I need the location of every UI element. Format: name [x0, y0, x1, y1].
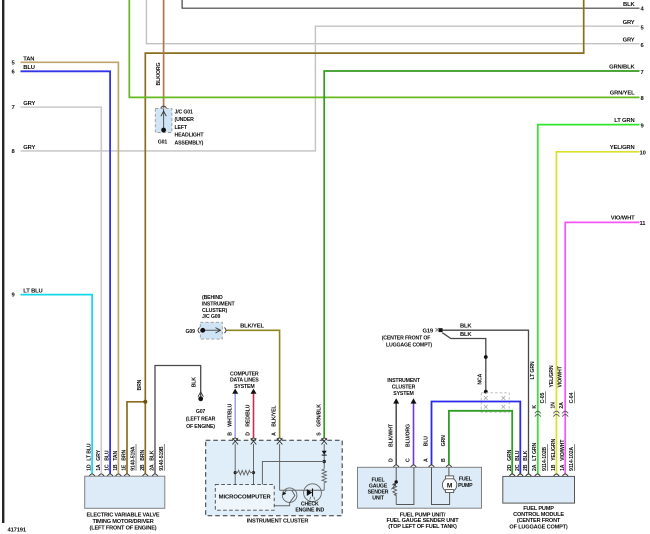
left margin bar: [2, 0, 4, 523]
svg-text:ENGINE IND: ENGINE IND: [295, 508, 324, 514]
svg-text:BLK: BLK: [460, 324, 472, 330]
svg-text:GRN/YEL: GRN/YEL: [610, 90, 635, 96]
svg-text:C-04: C-04: [569, 392, 575, 403]
svg-text:K: K: [532, 405, 538, 409]
svg-text:GRN/BLK: GRN/BLK: [316, 404, 322, 427]
svg-text:VIO/WHT: VIO/WHT: [611, 216, 635, 222]
svg-text:LT GRN: LT GRN: [532, 442, 538, 460]
control module pin chevrons: [509, 474, 568, 476]
svg-text:CLUSTER: CLUSTER: [392, 384, 416, 390]
svg-text:9114-102A: 9114-102A: [569, 447, 575, 471]
svg-text:9114-102B: 9114-102B: [542, 447, 548, 471]
svg-text:GRY: GRY: [23, 101, 35, 107]
wire BLK/ORG (top to J/C G01): [156, 0, 163, 109]
svg-text:(LEFT REAR: (LEFT REAR: [186, 416, 216, 422]
svg-text:G19: G19: [422, 329, 433, 335]
svg-text:BLK: BLK: [460, 332, 472, 338]
svg-text:(LEFT FRONT OF ENGINE): (LEFT FRONT OF ENGINE): [90, 525, 157, 531]
svg-text:TAN: TAN: [113, 450, 119, 460]
svg-text:7: 7: [641, 70, 644, 76]
diagram number 417191: [8, 528, 27, 534]
wire BLU/ORG (fuel pump unit pin C to instrument cluster system): [406, 398, 417, 465]
svg-text:2D: 2D: [507, 464, 513, 471]
svg-text:GRY: GRY: [623, 37, 635, 43]
svg-text:HEADLIGHT: HEADLIGHT: [175, 133, 205, 139]
svg-text:D: D: [246, 432, 252, 436]
svg-text:WHT/BLU: WHT/BLU: [227, 403, 233, 426]
cluster pin B: [232, 438, 238, 444]
svg-text:YEL/GRN: YEL/GRN: [549, 365, 555, 387]
svg-text:BLK: BLK: [150, 450, 156, 461]
cluster internal wire D: [252, 444, 255, 485]
svg-text:(CENTER FRONT: (CENTER FRONT: [517, 518, 561, 524]
svg-text:ASSEMBLY): ASSEMBLY): [175, 140, 204, 146]
svg-text:1B: 1B: [551, 464, 557, 471]
svg-text:(CENTER FRONT OF: (CENTER FRONT OF: [382, 335, 431, 341]
svg-text:1B: 1B: [113, 464, 119, 471]
svg-text:TIMING MOTOR/DRIVER: TIMING MOTOR/DRIVER: [92, 519, 153, 525]
svg-text:GRN: GRN: [507, 449, 513, 460]
svg-text:INSTRUMENT: INSTRUMENT: [202, 302, 235, 308]
wire BLK/YEL (J/C G09 to instrument cluster pin A): [226, 324, 280, 438]
transistor Q (check engine driver): [282, 488, 297, 503]
wire BLU 6 (left to EVVT pin 1C): [12, 65, 111, 474]
svg-text:BRN: BRN: [137, 379, 143, 390]
chord wire through transistor and lamp: [280, 489, 325, 491]
svg-text:NCA: NCA: [478, 373, 484, 384]
svg-text:MICROCOMPUTER: MICROCOMPUTER: [219, 494, 272, 500]
wire BLK (EVVT pin 2A to ground G07): [155, 366, 203, 475]
wire BLK/WHT (fuel pump unit pin D to instrument cluster system): [388, 398, 399, 465]
svg-text:OF ENGINE): OF ENGINE): [186, 424, 215, 430]
svg-text:9140-519B: 9140-519B: [159, 446, 165, 471]
wire TAN 5 (left to EVVT pin 1B): [12, 56, 119, 474]
svg-text:2A: 2A: [150, 464, 156, 471]
cluster pin S: [321, 438, 327, 444]
svg-text:(TOP LEFT OF FUEL TANK): (TOP LEFT OF FUEL TANK): [388, 524, 457, 530]
svg-text:G07: G07: [196, 409, 206, 415]
svg-text:1C: 1C: [105, 464, 111, 471]
svg-text:BRN: BRN: [122, 450, 128, 461]
ground G09: [186, 328, 206, 335]
svg-text:GRY: GRY: [96, 449, 102, 460]
ground G07 (LEFT REAR OF ENGINE): [186, 396, 216, 429]
node COMPUTER DATA LINES SYSTEM: [230, 372, 259, 390]
svg-text:COMPUTER: COMPUTER: [230, 372, 259, 378]
svg-text:B: B: [227, 432, 233, 436]
wire BLU (fuel pump unit pin A to control module pin 2C): [424, 402, 521, 475]
svg-text:LEFT: LEFT: [175, 125, 188, 131]
svg-text:UNIT: UNIT: [372, 496, 384, 502]
svg-text:PUMP: PUMP: [458, 483, 473, 489]
svg-text:BLK: BLK: [523, 450, 529, 461]
svg-text:(BEHIND: (BEHIND: [202, 295, 223, 301]
svg-text:M: M: [447, 482, 453, 489]
node INSTRUMENT CLUSTER SYSTEM: [387, 378, 420, 397]
svg-text:2B: 2B: [523, 464, 529, 471]
EVVT pin labels: [87, 443, 165, 471]
fuel pump unit pin chevrons D C A B: [393, 465, 451, 467]
svg-text:GRY: GRY: [623, 20, 635, 26]
svg-text:LT GRN: LT GRN: [530, 361, 536, 379]
svg-text:1A: 1A: [560, 464, 566, 471]
svg-text:CLUSTER): CLUSTER): [202, 308, 227, 314]
svg-text:BLK: BLK: [623, 2, 635, 8]
wire RED/BLU (computer data lines to cluster pin D): [246, 389, 257, 438]
resistor on S line: [322, 468, 326, 490]
svg-text:2A: 2A: [559, 402, 565, 409]
electric variable valve timing motor/driver box: [85, 476, 165, 508]
label J/C G01 (UNDER LEFT HEADLIGHT ASSEMBLY): [175, 110, 205, 147]
cluster pin A: [277, 438, 283, 444]
svg-text:G09: G09: [186, 329, 196, 335]
control module pin labels: [507, 438, 575, 471]
svg-text:2C: 2C: [515, 464, 521, 471]
wire BRN branch to EVVT pin 1E: [127, 379, 147, 474]
svg-text:7: 7: [12, 105, 15, 111]
svg-text:A: A: [424, 458, 430, 462]
cluster internal wire A: [279, 444, 281, 490]
label (BEHIND INSTRUMENT CLUSTER) J/C G09: [202, 295, 235, 320]
wire GRN (fuel pump unit pin B to control module pin 2D): [441, 411, 512, 475]
svg-text:1D: 1D: [87, 464, 93, 471]
svg-text:LT BLU: LT BLU: [23, 288, 42, 294]
svg-text:G01: G01: [158, 140, 168, 146]
svg-text:2A: 2A: [532, 464, 538, 471]
wire YEL/GRN 10 (right edge to control module pin 1B): [549, 145, 646, 474]
svg-text:9140-519A: 9140-519A: [131, 446, 137, 471]
svg-text:GRN: GRN: [441, 435, 447, 446]
svg-text:BLU: BLU: [424, 436, 430, 447]
svg-text:ELECTRIC VARIABLE VALVE: ELECTRIC VARIABLE VALVE: [87, 513, 160, 519]
svg-text:BLK: BLK: [191, 377, 197, 388]
connector (dashed) below NCA: [481, 393, 509, 412]
svg-text:BLK/YEL: BLK/YEL: [272, 405, 278, 427]
svg-text:1E: 1E: [122, 464, 128, 471]
svg-text:BLU: BLU: [105, 450, 111, 461]
in-line connector on LT GRN wire (pin K, C-05): [532, 391, 546, 416]
svg-text:FUEL: FUEL: [459, 477, 473, 483]
cluster internal wire B: [234, 444, 237, 485]
label FUEL PUMP CONTROL MODULE: [509, 506, 567, 531]
wire BLK 4 (top to right edge): [182, 0, 644, 13]
svg-text:BLK/WHT: BLK/WHT: [388, 423, 394, 447]
EVVT pin chevrons: [89, 474, 158, 476]
fuel gauge sender resistor: [368, 467, 414, 504]
ground G01: [158, 128, 168, 146]
svg-text:2B: 2B: [140, 464, 146, 471]
junction connector J/C G01: [155, 106, 172, 132]
svg-text:OF LUGGAGE COMPT): OF LUGGAGE COMPT): [509, 524, 567, 530]
svg-text:BRN: BRN: [140, 450, 146, 461]
wire LT BLU 9 (left to EVVT pin 1D): [12, 288, 93, 474]
microcomputer box: [215, 485, 274, 511]
wire branch S dot to microcomputer: [262, 462, 324, 485]
wire WHT/BLU (computer data lines to cluster pin B): [227, 389, 238, 438]
svg-text:J/C G09: J/C G09: [202, 314, 221, 320]
wire VIO/WHT 11 (right edge to control module pin 1A): [558, 216, 647, 475]
svg-text:INSTRUMENT CLUSTER: INSTRUMENT CLUSTER: [247, 519, 309, 525]
resistor between B and D lines: [235, 470, 253, 475]
svg-text:GRY: GRY: [23, 145, 35, 151]
svg-text:1N: 1N: [550, 402, 556, 409]
svg-text:FUEL PUMP: FUEL PUMP: [523, 506, 554, 512]
in-line connector on YEL/GRN wire (pin 1N): [550, 402, 559, 417]
svg-text:BLU/ORG: BLU/ORG: [406, 424, 412, 447]
svg-text:TAN: TAN: [23, 56, 34, 62]
instrument cluster box: [206, 440, 343, 524]
junction connector J/C G09: [198, 322, 226, 339]
wire GRN/YEL (top to right edge 8): [129, 0, 644, 102]
svg-text:SYSTEM: SYSTEM: [234, 384, 254, 390]
svg-text:LT GRN: LT GRN: [614, 118, 634, 124]
wire GRY 7 (left to EVVT pin 1A): [12, 101, 102, 474]
svg-text:YEL/GRN: YEL/GRN: [610, 145, 635, 151]
svg-text:BLU: BLU: [515, 450, 521, 461]
svg-text:BLU: BLU: [23, 65, 34, 71]
wire GRY (top to right edge 6): [146, 0, 644, 49]
wire GRY (left 8 to right 5): [12, 20, 645, 155]
svg-text:CONTROL MODULE: CONTROL MODULE: [513, 512, 564, 518]
svg-text:11: 11: [640, 221, 647, 227]
svg-text:1A: 1A: [96, 464, 102, 471]
label FUEL PUMP UNIT: [386, 512, 459, 530]
wire BLK (G19 to NCA connector): [442, 332, 487, 393]
fuel pump control module box: [503, 476, 575, 503]
svg-text:10: 10: [640, 151, 646, 157]
svg-text:GRN/BLK: GRN/BLK: [609, 64, 635, 70]
svg-text:LT BLU: LT BLU: [87, 443, 93, 461]
lamp CHECK ENGINE IND: [295, 484, 324, 514]
svg-text:INSTRUMENT: INSTRUMENT: [387, 378, 420, 384]
svg-text:CHECK: CHECK: [301, 501, 319, 507]
ground G19: [382, 328, 443, 349]
svg-text:C: C: [406, 458, 412, 462]
svg-text:J/C G01: J/C G01: [175, 110, 194, 116]
svg-text:417191: 417191: [8, 528, 27, 534]
wire BLK (G19 to control module pin 2B): [442, 324, 528, 475]
svg-text:BLK/YEL: BLK/YEL: [240, 324, 264, 330]
cluster pin D: [251, 438, 257, 444]
cluster internal wire S with diode: [322, 444, 327, 468]
svg-text:YEL/GRN: YEL/GRN: [551, 438, 557, 460]
svg-text:(UNDER: (UNDER: [175, 117, 195, 123]
label ELECTRIC VARIABLE VALVE TIMING MOTOR/DRIVER: [87, 513, 160, 532]
svg-text:LUGGAGE COMPT): LUGGAGE COMPT): [386, 343, 432, 349]
svg-text:C-05: C-05: [540, 392, 546, 403]
svg-text:BLK/ORG: BLK/ORG: [156, 63, 162, 86]
in-line connector on VIO/WHT wire (pin 2A, C-04): [559, 391, 575, 416]
wire GRN/BLK (right edge 7 to instrument cluster pin S): [316, 64, 643, 438]
transistor emitter to microcomputer: [274, 503, 289, 506]
svg-text:VIO/WHT: VIO/WHT: [558, 365, 564, 387]
svg-text:B: B: [441, 458, 447, 462]
fuel pump motor M: [432, 467, 474, 504]
svg-text:VIO/WHT: VIO/WHT: [560, 439, 566, 461]
svg-text:A: A: [272, 432, 278, 436]
fuel pump unit / fuel gauge sender unit box: [358, 467, 482, 508]
wire BRN (top right, across, down to EVVT pin 2B): [145, 0, 583, 474]
svg-text:RED/BLU: RED/BLU: [246, 404, 252, 426]
svg-text:SYSTEM: SYSTEM: [393, 391, 413, 397]
svg-text:DATA LINES: DATA LINES: [230, 378, 259, 384]
svg-text:D: D: [388, 458, 394, 462]
wire LT GRN 9 (right edge to control module pin 2A): [530, 118, 644, 475]
